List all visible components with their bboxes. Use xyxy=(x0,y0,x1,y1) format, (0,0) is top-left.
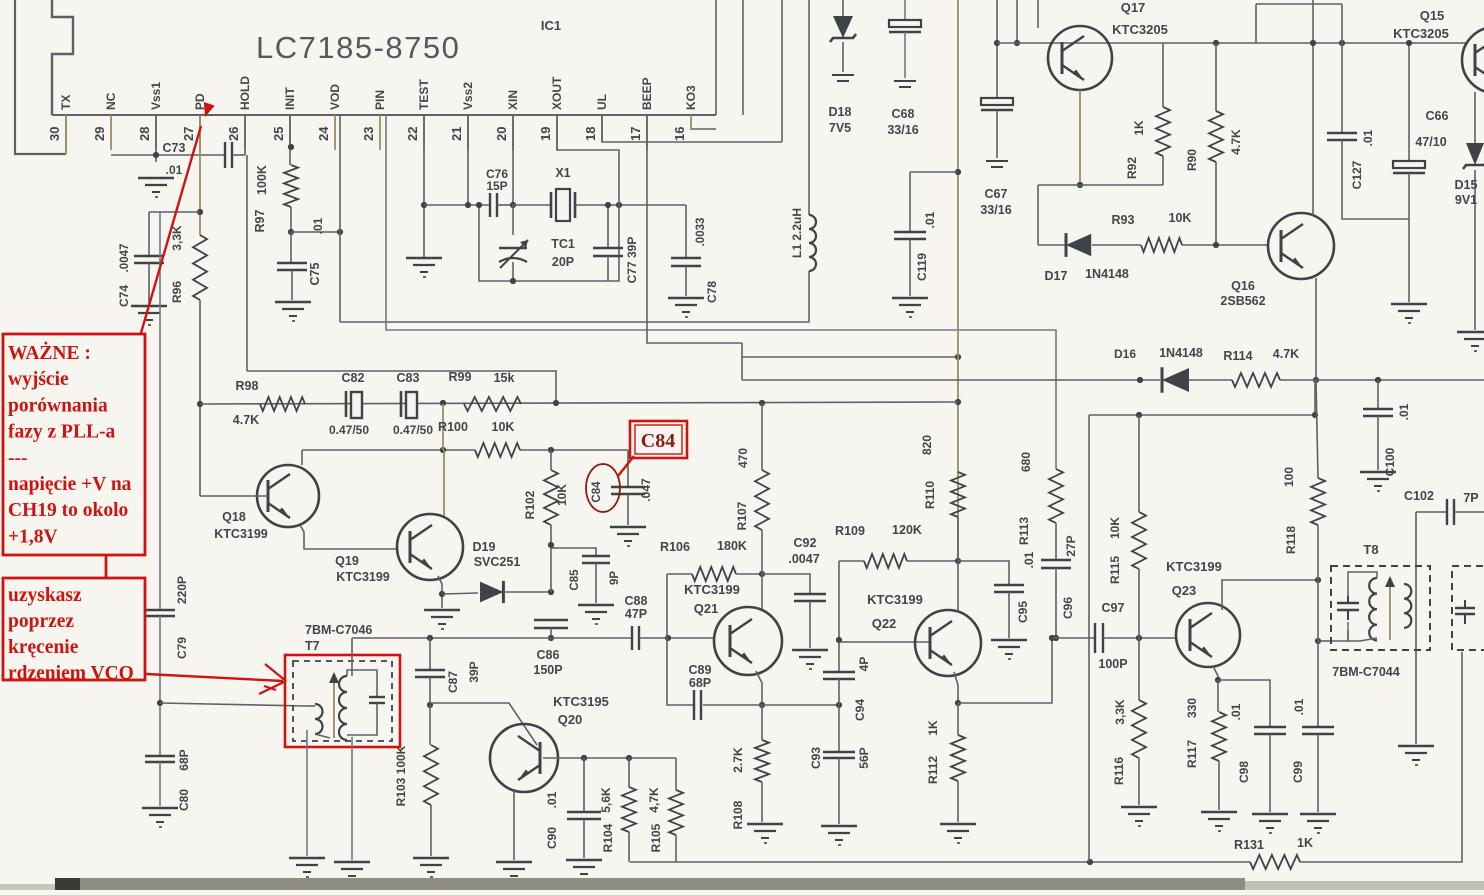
svg-text:22: 22 xyxy=(405,127,420,141)
svg-text:KTC3205: KTC3205 xyxy=(1112,22,1168,37)
svg-text:C75: C75 xyxy=(308,262,322,285)
svg-text:CH19 to okolo: CH19 to okolo xyxy=(8,500,128,521)
svg-text:HOLD: HOLD xyxy=(238,76,252,110)
svg-text:100P: 100P xyxy=(1098,657,1127,671)
svg-text:47/10: 47/10 xyxy=(1415,135,1446,149)
svg-text:1N4148: 1N4148 xyxy=(1159,346,1203,360)
svg-text:21: 21 xyxy=(449,127,464,141)
svg-text:KTC3205: KTC3205 xyxy=(1393,26,1449,41)
svg-text:20: 20 xyxy=(494,127,509,141)
svg-text:C102: C102 xyxy=(1404,489,1434,503)
svg-text:R114: R114 xyxy=(1223,349,1252,363)
svg-text:---: --- xyxy=(8,448,27,469)
svg-text:UL: UL xyxy=(595,94,609,110)
svg-text:.01: .01 xyxy=(1022,551,1036,568)
svg-text:.01: .01 xyxy=(1229,703,1243,720)
svg-text:C93: C93 xyxy=(809,747,823,769)
svg-text:Q19: Q19 xyxy=(335,554,359,568)
svg-text:C84: C84 xyxy=(641,430,675,452)
svg-text:R113: R113 xyxy=(1017,517,1031,545)
svg-text:C82: C82 xyxy=(342,371,365,385)
svg-text:47P: 47P xyxy=(625,607,647,621)
svg-text:R106: R106 xyxy=(660,540,690,554)
svg-text:+1,8V: +1,8V xyxy=(8,526,58,547)
svg-text:2SB562: 2SB562 xyxy=(1220,294,1265,308)
svg-text:7BM-C7044: 7BM-C7044 xyxy=(1332,665,1399,679)
svg-text:R90: R90 xyxy=(1185,149,1199,171)
svg-text:20P: 20P xyxy=(552,255,574,269)
svg-text:4,7K: 4,7K xyxy=(647,787,661,813)
svg-text:9P: 9P xyxy=(609,571,621,585)
svg-text:4.7K: 4.7K xyxy=(1229,129,1243,155)
svg-text:.01: .01 xyxy=(923,211,937,228)
svg-text:uzyskasz: uzyskasz xyxy=(8,585,82,606)
svg-text:330: 330 xyxy=(1185,698,1199,718)
svg-text:D16: D16 xyxy=(1114,347,1136,361)
svg-text:C74: C74 xyxy=(117,285,131,307)
svg-text:.01: .01 xyxy=(1361,129,1375,146)
svg-text:680: 680 xyxy=(1019,452,1033,472)
svg-text:R96: R96 xyxy=(170,281,184,303)
svg-text:.01: .01 xyxy=(545,791,559,808)
svg-text:KTC3199: KTC3199 xyxy=(1166,559,1222,574)
svg-text:C98: C98 xyxy=(1237,761,1251,783)
svg-text:0.47/50: 0.47/50 xyxy=(393,423,433,437)
svg-text:INIT: INIT xyxy=(283,87,297,110)
svg-text:27: 27 xyxy=(181,127,196,141)
svg-text:C84: C84 xyxy=(591,481,603,503)
svg-text:28: 28 xyxy=(137,127,152,141)
svg-text:27P: 27P xyxy=(1064,535,1078,556)
svg-text:T8: T8 xyxy=(1363,542,1378,557)
svg-text:BEEP: BEEP xyxy=(640,77,654,110)
svg-text:C80: C80 xyxy=(177,789,191,811)
svg-text:rdzeniem VCO: rdzeniem VCO xyxy=(8,663,134,684)
svg-text:C88: C88 xyxy=(625,594,648,608)
svg-text:1N4148: 1N4148 xyxy=(1085,267,1129,281)
svg-text:C90: C90 xyxy=(545,827,559,849)
svg-text:220P: 220P xyxy=(175,576,189,604)
svg-text:4.7K: 4.7K xyxy=(233,413,259,427)
svg-text:PIN: PIN xyxy=(373,90,387,110)
svg-text:D15: D15 xyxy=(1455,178,1478,192)
svg-text:KTC3199: KTC3199 xyxy=(684,582,740,597)
svg-text:C85: C85 xyxy=(569,569,581,591)
svg-text:.01: .01 xyxy=(166,163,183,177)
svg-text:C96: C96 xyxy=(1061,597,1075,619)
svg-text:C89: C89 xyxy=(689,663,712,677)
svg-text:wyjście: wyjście xyxy=(8,369,69,390)
svg-text:.0047: .0047 xyxy=(788,552,819,566)
svg-text:120K: 120K xyxy=(892,523,922,537)
svg-text:VOD: VOD xyxy=(328,84,342,110)
svg-text:10K: 10K xyxy=(1169,211,1192,225)
svg-text:1K: 1K xyxy=(926,720,940,736)
svg-text:470: 470 xyxy=(736,448,750,468)
svg-text:7V5: 7V5 xyxy=(829,121,851,135)
svg-text:XOUT: XOUT xyxy=(550,76,564,110)
svg-text:D18: D18 xyxy=(829,105,852,119)
svg-text:15P: 15P xyxy=(486,179,507,193)
svg-text:7P: 7P xyxy=(1463,491,1478,505)
svg-text:D17: D17 xyxy=(1045,269,1068,283)
svg-text:napięcie +V na: napięcie +V na xyxy=(8,474,132,495)
svg-text:C68: C68 xyxy=(892,107,915,121)
svg-text:23: 23 xyxy=(361,127,376,141)
svg-text:TEST: TEST xyxy=(417,79,431,110)
svg-text:poprzez: poprzez xyxy=(8,611,74,632)
svg-text:Q17: Q17 xyxy=(1121,0,1146,15)
svg-text:TX: TX xyxy=(59,95,73,110)
svg-text:1K: 1K xyxy=(1132,120,1146,136)
svg-text:Q20: Q20 xyxy=(558,712,583,727)
svg-text:KTC3195: KTC3195 xyxy=(553,694,609,709)
svg-text:25: 25 xyxy=(271,127,286,141)
svg-text:7BM-C7046: 7BM-C7046 xyxy=(305,623,372,637)
svg-text:Q15: Q15 xyxy=(1420,8,1445,23)
svg-text:4P: 4P xyxy=(857,657,871,672)
svg-text:R131: R131 xyxy=(1234,838,1264,852)
svg-text:C79: C79 xyxy=(175,637,189,659)
svg-text:2.7K: 2.7K xyxy=(731,747,745,773)
svg-text:R112: R112 xyxy=(926,756,940,784)
svg-text:C99: C99 xyxy=(1291,761,1305,783)
svg-text:150P: 150P xyxy=(533,663,562,677)
svg-text:100: 100 xyxy=(1282,467,1296,487)
svg-text:.0047: .0047 xyxy=(119,244,131,273)
svg-text:C100: C100 xyxy=(1383,447,1397,476)
svg-text:R102: R102 xyxy=(523,490,537,519)
svg-text:C97: C97 xyxy=(1102,601,1125,615)
svg-text:19: 19 xyxy=(538,127,553,141)
svg-text:kręcenie: kręcenie xyxy=(8,637,79,658)
svg-text:C73: C73 xyxy=(163,141,186,155)
svg-text:68P: 68P xyxy=(177,749,191,770)
svg-text:16: 16 xyxy=(672,127,687,141)
svg-text:.0033: .0033 xyxy=(695,218,707,247)
svg-text:C66: C66 xyxy=(1426,109,1449,123)
svg-text:33/16: 33/16 xyxy=(980,203,1011,217)
svg-text:10K: 10K xyxy=(1108,517,1122,539)
svg-text:26: 26 xyxy=(226,127,241,141)
svg-text:39P: 39P xyxy=(467,661,481,682)
svg-text:18: 18 xyxy=(583,127,598,141)
svg-text:24: 24 xyxy=(316,126,331,141)
svg-text:Q18: Q18 xyxy=(222,510,246,524)
svg-text:LC7185-8750: LC7185-8750 xyxy=(256,30,460,65)
svg-text:17: 17 xyxy=(628,127,643,141)
svg-text:IC1: IC1 xyxy=(541,18,561,33)
svg-text:C119: C119 xyxy=(915,253,929,281)
svg-text:Q16: Q16 xyxy=(1231,279,1255,293)
svg-text:R103 100K: R103 100K xyxy=(394,745,408,806)
svg-text:KO3: KO3 xyxy=(684,85,698,110)
svg-text:C86: C86 xyxy=(537,648,560,662)
svg-text:R110: R110 xyxy=(923,481,937,509)
svg-text:R117: R117 xyxy=(1185,740,1199,768)
svg-text:C83: C83 xyxy=(397,371,420,385)
svg-text:Q23: Q23 xyxy=(1172,583,1197,598)
svg-text:10K: 10K xyxy=(492,420,515,434)
svg-text:.047: .047 xyxy=(639,478,653,502)
svg-text:R93: R93 xyxy=(1112,213,1135,227)
svg-text:TC1: TC1 xyxy=(551,237,575,251)
svg-text:Q21: Q21 xyxy=(694,601,719,616)
svg-text:C78: C78 xyxy=(705,281,719,303)
svg-text:R107: R107 xyxy=(735,501,749,530)
svg-text:R100: R100 xyxy=(438,420,468,434)
svg-text:29: 29 xyxy=(92,127,107,141)
svg-text:C77 39P: C77 39P xyxy=(625,237,639,284)
svg-text:56P: 56P xyxy=(857,747,871,768)
svg-text:C67: C67 xyxy=(985,187,1008,201)
svg-text:Q22: Q22 xyxy=(872,616,897,631)
svg-text:Vss2: Vss2 xyxy=(461,82,475,110)
svg-text:KTC3199: KTC3199 xyxy=(214,527,268,541)
svg-text:R99: R99 xyxy=(449,370,472,384)
svg-text:.01: .01 xyxy=(1397,403,1411,420)
svg-text:R105: R105 xyxy=(649,823,663,852)
svg-text:4.7K: 4.7K xyxy=(1273,347,1299,361)
svg-text:0.47/50: 0.47/50 xyxy=(329,423,369,437)
svg-text:R116: R116 xyxy=(1112,757,1126,785)
svg-text:C92: C92 xyxy=(794,536,817,550)
svg-text:100K: 100K xyxy=(255,165,269,195)
svg-text:R109: R109 xyxy=(835,524,865,538)
svg-text:porównania: porównania xyxy=(8,395,108,416)
svg-text:R118: R118 xyxy=(1284,526,1298,554)
svg-text:R108: R108 xyxy=(731,800,745,829)
svg-text:R115: R115 xyxy=(1108,556,1122,584)
svg-text:C87: C87 xyxy=(446,671,460,693)
svg-text:15k: 15k xyxy=(494,371,515,385)
svg-text:R92: R92 xyxy=(1125,157,1139,179)
svg-text:180K: 180K xyxy=(717,539,747,553)
svg-text:KTC3199: KTC3199 xyxy=(336,570,390,584)
svg-text:.01: .01 xyxy=(1292,698,1306,715)
svg-text:X1: X1 xyxy=(555,166,570,180)
svg-text:820: 820 xyxy=(920,435,934,455)
svg-text:9V1: 9V1 xyxy=(1455,193,1477,207)
svg-text:R104: R104 xyxy=(601,823,615,852)
svg-text:SVC251: SVC251 xyxy=(474,555,521,569)
svg-text:KTC3199: KTC3199 xyxy=(867,592,923,607)
svg-text:D19: D19 xyxy=(473,540,496,554)
svg-text:R98: R98 xyxy=(236,379,259,393)
svg-text:L1 2.2uH: L1 2.2uH xyxy=(790,208,804,258)
svg-text:33/16: 33/16 xyxy=(887,123,918,137)
svg-text:C127: C127 xyxy=(1350,160,1364,189)
svg-text:NC: NC xyxy=(104,92,118,110)
svg-text:.01: .01 xyxy=(311,217,325,234)
svg-text:R97: R97 xyxy=(253,209,267,232)
svg-text:fazy z PLL-a: fazy z PLL-a xyxy=(8,422,115,443)
svg-text:WAŻNE :: WAŻNE : xyxy=(8,343,91,364)
svg-text:5,6K: 5,6K xyxy=(599,787,613,813)
svg-text:30: 30 xyxy=(47,127,62,141)
svg-text:C95: C95 xyxy=(1016,601,1030,623)
svg-text:3,3K: 3,3K xyxy=(1113,699,1127,725)
svg-text:C94: C94 xyxy=(853,699,867,721)
svg-text:T7: T7 xyxy=(305,639,320,653)
svg-text:XIN: XIN xyxy=(506,90,520,110)
svg-text:10K: 10K xyxy=(555,484,569,506)
svg-text:68P: 68P xyxy=(689,676,711,690)
svg-text:1K: 1K xyxy=(1297,836,1313,850)
svg-text:Vss1: Vss1 xyxy=(149,82,163,110)
